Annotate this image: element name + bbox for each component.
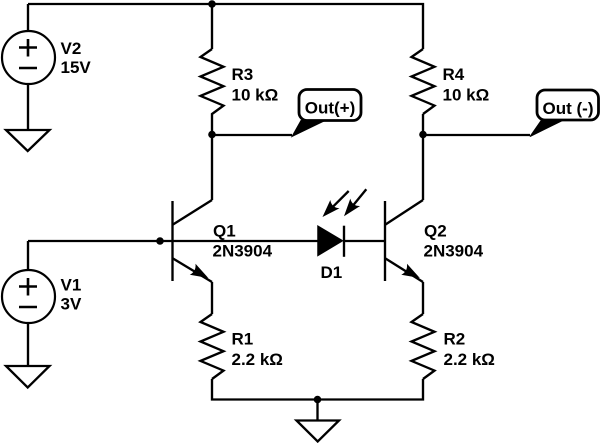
svg-text:R4: R4 — [443, 65, 465, 84]
diode D1 (photodiode) — [318, 226, 344, 257]
wire R3 bottom to Q1 collector — [211, 135, 213, 201]
wire to Out(+) flag — [212, 134, 292, 136]
svg-text:V1: V1 — [61, 276, 82, 295]
wire V1 to base rail — [27, 241, 29, 270]
resistor R4 — [412, 49, 435, 114]
svg-text:2.2 kΩ: 2.2 kΩ — [232, 350, 283, 369]
resistor R1 — [201, 314, 224, 379]
wire V2 to ground — [27, 84, 29, 130]
svg-text:2.2 kΩ: 2.2 kΩ — [444, 350, 495, 369]
node junction dot R3 bottom / Out(+) — [208, 131, 216, 139]
transistor Q1 — [173, 200, 213, 282]
flag Out(+) — [299, 90, 361, 121]
resistor R2 — [412, 314, 435, 379]
wire R3 top lead — [211, 4, 213, 49]
ground (V1) — [6, 366, 50, 388]
svg-text:Out (-): Out (-) — [543, 99, 594, 118]
transistor Q2 — [385, 200, 423, 282]
voltage source V1 — [2, 270, 55, 323]
voltage source V2 — [2, 31, 55, 84]
svg-text:2N3904: 2N3904 — [424, 242, 484, 261]
wire R4 bottom — [422, 114, 424, 135]
wire to Out(-) flag — [423, 134, 530, 136]
node junction dot R4 bottom / Out(-) — [419, 131, 427, 139]
wire R2 bottom to ground node — [318, 379, 424, 400]
svg-text:Q2: Q2 — [424, 222, 447, 241]
wire V1 to ground — [27, 323, 29, 366]
wire D1 cathode to Q2 base — [344, 240, 385, 242]
node junction dot base wire — [156, 237, 164, 245]
svg-text:3V: 3V — [61, 295, 82, 314]
wire V2 top lead — [27, 4, 29, 31]
svg-text:Out(+): Out(+) — [305, 99, 356, 118]
photodiode arrow 1 — [323, 191, 349, 217]
svg-text:R3: R3 — [232, 65, 254, 84]
wire ground node down — [316, 400, 318, 421]
node junction dot top rail / R3 — [208, 0, 216, 8]
wire R4 bottom to Q2 collector — [422, 135, 424, 201]
flag Out(-) — [537, 90, 599, 120]
flag pointer Out(-) — [530, 120, 564, 137]
svg-text:Q1: Q1 — [213, 222, 236, 241]
node junction dot ground — [314, 396, 322, 404]
svg-text:10 kΩ: 10 kΩ — [443, 86, 490, 105]
ground (bottom) — [297, 421, 340, 442]
wire R1 bottom to ground node — [212, 379, 318, 400]
svg-text:R1: R1 — [232, 330, 254, 349]
wire base net V1 to D1 anode — [28, 240, 318, 242]
svg-text:2N3904: 2N3904 — [213, 242, 273, 261]
svg-text:R2: R2 — [444, 330, 466, 349]
svg-text:10 kΩ: 10 kΩ — [232, 86, 279, 105]
svg-text:D1: D1 — [321, 263, 343, 282]
svg-text:15V: 15V — [61, 58, 92, 77]
photodiode arrow 2 — [344, 189, 366, 216]
wire Q2 emitter to R2 — [422, 282, 424, 314]
wire top power rail from V2 to R4 drop — [28, 4, 423, 49]
resistor R3 — [201, 49, 224, 135]
svg-text:V2: V2 — [61, 39, 82, 58]
wire Q1 emitter to R1 — [211, 282, 213, 314]
ground (V2) — [6, 130, 50, 151]
flag pointer Out(+) — [292, 121, 325, 137]
